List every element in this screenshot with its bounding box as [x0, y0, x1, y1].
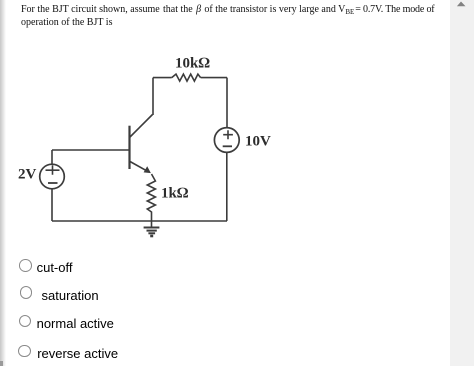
transistor Q1 emitter lead with arrow [130, 162, 151, 174]
label 10V [245, 133, 271, 149]
resistor R2 1k zigzag [147, 174, 155, 221]
label 10kOhm [175, 55, 210, 71]
wire: top wire left segment [153, 77, 172, 79]
svg-text:1kΩ: 1kΩ [161, 186, 189, 202]
scrollbar track [450, 0, 474, 366]
svg-text:10V: 10V [245, 133, 271, 149]
ground [144, 221, 160, 236]
radio button option 2 [20, 286, 33, 299]
wire: 10V source bottom lead [226, 152, 228, 221]
wire: left vertical collector branch [152, 78, 154, 115]
bottom-left gray patch [0, 361, 3, 366]
svg-text:2V: 2V [18, 167, 37, 183]
wire: bottom wire [52, 220, 227, 222]
left edge shadow [0, 0, 6, 366]
voltage source V1 2V [40, 164, 65, 189]
voltage source V2 10V [214, 128, 239, 153]
wire: 2V source bottom lead [51, 189, 53, 221]
transistor Q1 collector lead [130, 115, 153, 138]
wire: right vertical top [226, 78, 228, 128]
svg-text:10kΩ: 10kΩ [175, 55, 210, 71]
label 1kOhm [161, 186, 189, 202]
radio button option 1 [19, 259, 32, 272]
label 2V [18, 167, 37, 183]
wire: 2V source top lead [51, 150, 53, 164]
radio button option 3 [19, 315, 32, 328]
question text [21, 5, 434, 17]
resistor R1 10k zigzag [172, 74, 201, 81]
transistor Q1 base bar [128, 126, 130, 169]
scrollbar up arrow [449, 0, 474, 20]
wire: top wire right segment [201, 77, 227, 79]
wire: base wire [52, 149, 130, 151]
radio button option 4 [18, 345, 31, 358]
